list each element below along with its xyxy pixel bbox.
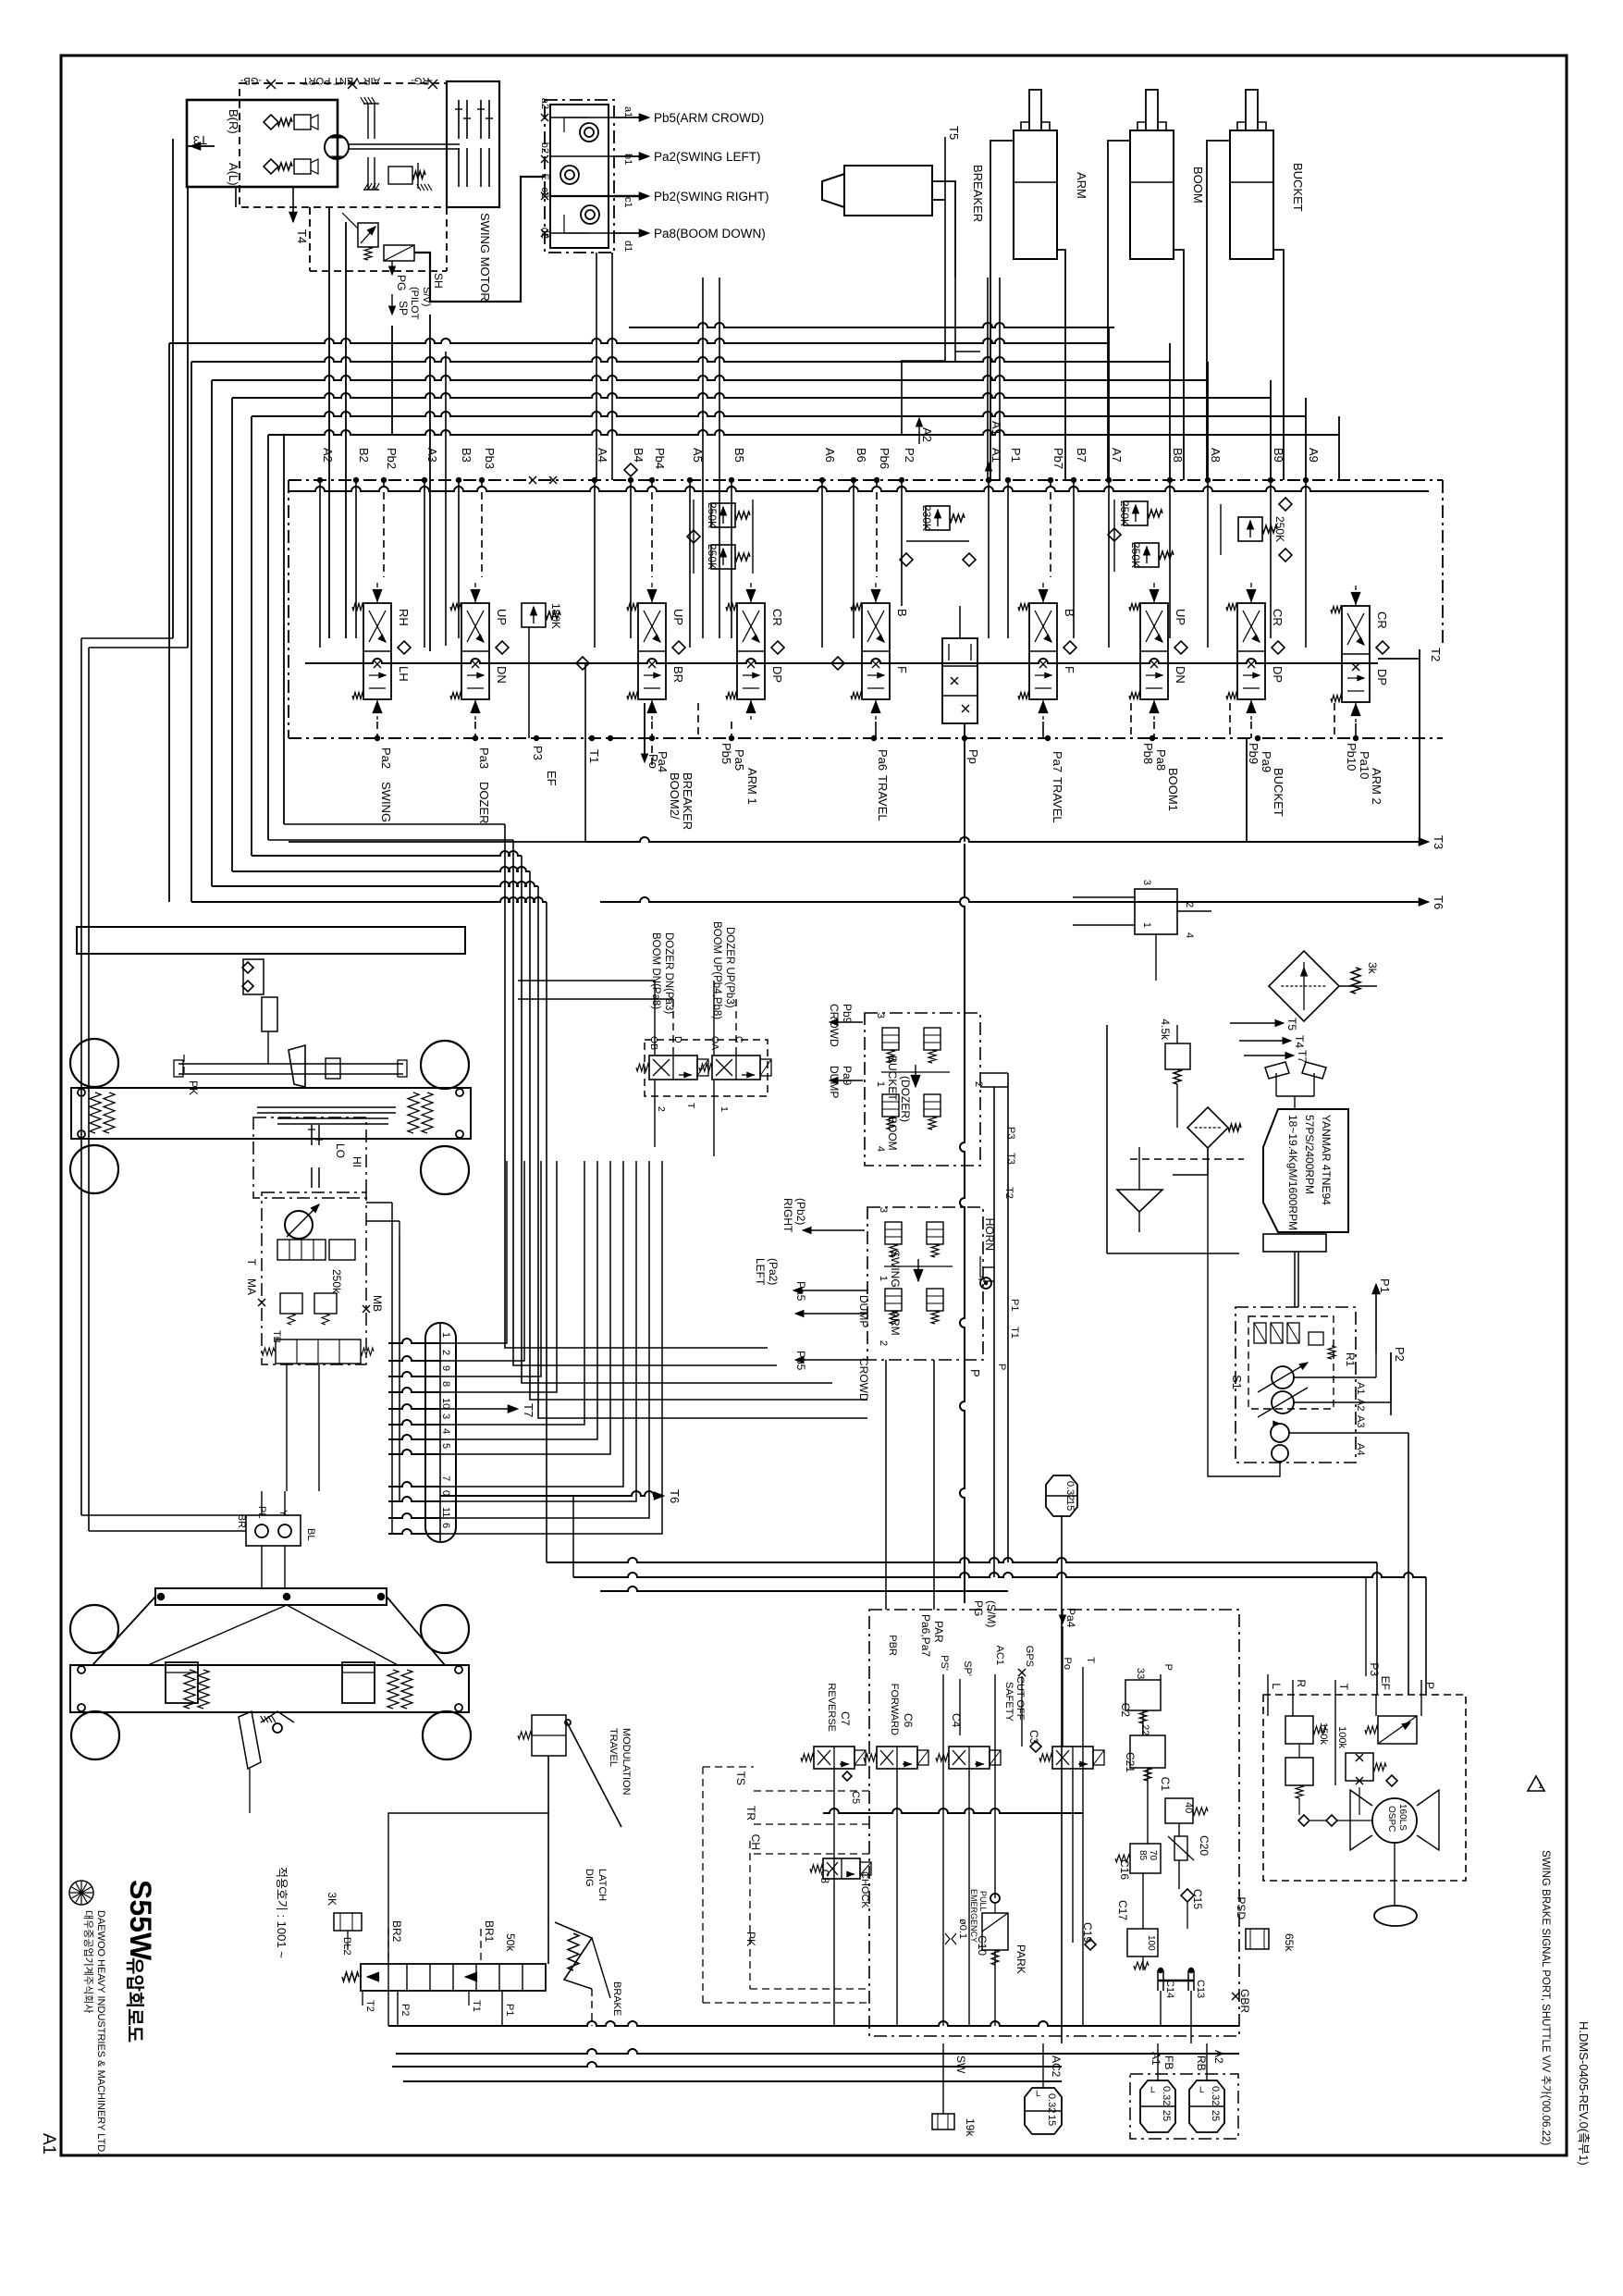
svg-text:T7: T7 xyxy=(522,1403,535,1417)
svg-text:T1: T1 xyxy=(1009,1327,1020,1339)
C14 C13 caps xyxy=(1157,1970,1159,1991)
svg-text:P3: P3 xyxy=(1005,1127,1016,1139)
pump inner box xyxy=(1248,1316,1334,1409)
clutch HI xyxy=(311,1125,313,1145)
svg-text:C6: C6 xyxy=(902,1713,915,1728)
svg-text:B8: B8 xyxy=(1171,448,1185,463)
pilot solenoid xyxy=(384,245,414,261)
check valve diamond 2 xyxy=(264,159,278,174)
svg-text:B9: B9 xyxy=(1272,448,1285,463)
svg-text:Pa2: Pa2 xyxy=(379,747,393,769)
svg-text:LEFT: LEFT xyxy=(754,1258,767,1286)
funnel breather xyxy=(1117,1190,1162,1212)
solenoid valve 2 xyxy=(712,1055,760,1080)
junction block 3124 xyxy=(1135,889,1177,934)
bottom subsystem boundary xyxy=(869,1610,1239,2036)
svg-text:0.32: 0.32 xyxy=(1046,2093,1057,2113)
svg-text:P1: P1 xyxy=(1378,1278,1392,1293)
svg-text:Pa4: Pa4 xyxy=(1064,1608,1077,1628)
svg-text:A2: A2 xyxy=(1355,1399,1366,1411)
relief 250K pair boom2 xyxy=(711,503,735,527)
wire Pb2 out xyxy=(614,195,647,197)
svg-text:Pp: Pp xyxy=(966,749,980,764)
boom cylinder rod xyxy=(1146,90,1158,130)
harness connector oval xyxy=(425,1323,456,1542)
relief 250K pair boom1 xyxy=(1124,501,1148,525)
svg-text:A4: A4 xyxy=(596,448,609,463)
spool UP/DN dozer xyxy=(461,603,489,699)
svg-text:L: L xyxy=(1150,2085,1155,2094)
diff wedge xyxy=(289,1045,305,1087)
svg-text:DP: DP xyxy=(1375,669,1389,685)
svg-text:CR: CR xyxy=(770,609,784,626)
svg-text:T3: T3 xyxy=(1432,835,1445,849)
brake cylinder left xyxy=(166,1662,198,1703)
wire arm cyl ports xyxy=(990,141,1014,480)
coupling hatch top xyxy=(361,97,364,104)
svg-text:T6: T6 xyxy=(668,1489,682,1503)
wheel rear-left-2 xyxy=(71,1711,119,1759)
svg-text:25: 25 xyxy=(1210,2110,1221,2121)
label Pb9 CROWD xyxy=(832,1021,863,1023)
axle spring hatch left xyxy=(90,1092,101,1133)
wire Pa8 out xyxy=(614,232,647,234)
svg-text:A6: A6 xyxy=(823,448,837,463)
svg-text:S55W: S55W xyxy=(124,1880,157,1961)
valve block top edge xyxy=(289,487,1429,491)
pilot bus wire y430 xyxy=(232,393,1271,398)
svg-text:Pb9: Pb9 xyxy=(1247,743,1260,764)
svg-text:P1: P1 xyxy=(1009,448,1023,463)
accumulator 0.32/15 bottom xyxy=(1025,2088,1062,2134)
swing motor dashed enclosure xyxy=(240,83,447,207)
solenoid wires xyxy=(654,981,656,1055)
svg-text:Pb5(ARM CROWD): Pb5(ARM CROWD) xyxy=(654,111,764,125)
svg-text:ARM: ARM xyxy=(889,1311,902,1336)
svg-text:A1: A1 xyxy=(990,421,1003,436)
svg-text:3: 3 xyxy=(440,1413,451,1419)
steering valve 100k xyxy=(1346,1753,1373,1781)
svg-text:15: 15 xyxy=(1064,1500,1076,1511)
svg-text:P1: P1 xyxy=(1009,1299,1020,1311)
relief cartridge 1 xyxy=(294,115,311,130)
svg-text:BUCKET: BUCKET xyxy=(886,1055,899,1101)
valve check diamonds xyxy=(398,641,411,654)
svg-text:BOOM: BOOM xyxy=(886,1117,899,1151)
brake valve body xyxy=(361,1964,546,1991)
svg-text:FORWARD: FORWARD xyxy=(889,1684,900,1735)
valve 4.5k xyxy=(1165,1043,1190,1069)
svg-text:PAR: PAR xyxy=(932,1621,945,1643)
wheel front-right-2 xyxy=(421,1146,469,1194)
svg-text:1: 1 xyxy=(875,1081,886,1087)
svg-text:Pb10: Pb10 xyxy=(1345,743,1359,771)
axle spring hatch right xyxy=(408,1092,419,1133)
svg-text:d1: d1 xyxy=(622,241,633,252)
svg-text:A8: A8 xyxy=(1209,448,1223,463)
svg-text:Pa9: Pa9 xyxy=(841,1066,854,1086)
svg-text:B4: B4 xyxy=(632,448,646,463)
rear link bars xyxy=(92,1597,155,1665)
svg-text:DOZER UP(Pb3): DOZER UP(Pb3) xyxy=(724,927,735,1008)
svg-text:PARK: PARK xyxy=(1014,1944,1027,1974)
valve interconnect rail xyxy=(305,659,1378,663)
brake port stubs xyxy=(362,1991,363,2006)
svg-text:E: E xyxy=(539,174,550,180)
svg-text:Po: Po xyxy=(1062,1658,1073,1670)
pilot bus wire y470 xyxy=(268,430,1339,435)
valve block top boundary xyxy=(289,479,1443,481)
svg-text:2: 2 xyxy=(973,1081,984,1087)
spool CR/DP arm1 xyxy=(737,603,765,699)
svg-text:DOZER: DOZER xyxy=(477,782,491,824)
svg-text:1: 1 xyxy=(719,1106,730,1112)
svg-text:T2: T2 xyxy=(1003,1187,1014,1199)
svg-text:22: 22 xyxy=(1139,1724,1150,1735)
pedal pair xyxy=(1265,1062,1289,1079)
svg-text:BL2: BL2 xyxy=(341,1937,352,1956)
svg-text:LATCH: LATCH xyxy=(596,1869,608,1901)
valve C8 CHOCK xyxy=(823,1858,860,1879)
svg-text:100k: 100k xyxy=(1336,1726,1347,1748)
svg-text:PG: PG xyxy=(395,275,408,290)
spool CR/DP bucket xyxy=(1237,603,1265,699)
svg-text:T5: T5 xyxy=(1285,1018,1298,1031)
svg-text:A7: A7 xyxy=(1110,448,1124,463)
check valve diamond 1 xyxy=(264,115,278,130)
wire breaker lines xyxy=(932,181,955,278)
svg-text:L: L xyxy=(1199,2085,1204,2094)
brake valve springs xyxy=(367,1972,379,1981)
svg-text:250K: 250K xyxy=(706,502,719,528)
wire T6 arrow xyxy=(440,1491,660,1496)
svg-text:ARM 1: ARM 1 xyxy=(745,768,759,805)
bus left turn wires xyxy=(168,343,170,902)
center bypass Pp section xyxy=(942,638,977,723)
wire T2 xyxy=(1378,658,1420,660)
bottom trunk wires xyxy=(388,2021,1239,2026)
svg-text:BUCKET: BUCKET xyxy=(1291,163,1305,212)
svg-text:BOOM UP(Pb4,Pb8): BOOM UP(Pb4,Pb8) xyxy=(711,921,722,1019)
svg-text:CROWD: CROWD xyxy=(828,1004,841,1047)
svg-text:T3: T3 xyxy=(193,133,207,147)
travel modulation valve xyxy=(532,1715,566,1756)
svg-text:CHOCK: CHOCK xyxy=(859,1871,870,1908)
svg-text:C21: C21 xyxy=(1124,1752,1137,1772)
svg-text:TRAVEL: TRAVEL xyxy=(876,775,890,821)
valve C2 33 xyxy=(1125,1680,1161,1710)
svg-text:R: R xyxy=(1295,1679,1308,1687)
svg-text:A9: A9 xyxy=(1307,448,1321,463)
pilot bus wire y411 xyxy=(212,376,1208,380)
wire swing left down 1 xyxy=(172,139,174,638)
label GBR xyxy=(1232,1993,1239,2000)
svg-text:대우중공업기계주식회사: 대우중공업기계주식회사 xyxy=(82,1910,94,2013)
svg-text:160LS: 160LS xyxy=(1397,1804,1408,1831)
svg-text:ARM 2: ARM 2 xyxy=(1370,768,1383,805)
wire T5 T4 T7 arrows xyxy=(1230,1022,1278,1024)
svg-text:1: 1 xyxy=(1538,1781,1543,1790)
svg-text:P3: P3 xyxy=(1368,1662,1381,1676)
gear set 1 xyxy=(458,100,460,139)
engine block YANMAR xyxy=(1263,1109,1348,1232)
valve C7 REVERSE xyxy=(814,1747,855,1769)
svg-text:TR: TR xyxy=(744,1806,757,1821)
svg-text:85: 85 xyxy=(1137,1850,1148,1861)
port T3 arrow xyxy=(187,145,215,147)
svg-text:T4: T4 xyxy=(295,229,309,243)
svg-text:C8: C8 xyxy=(818,1870,831,1884)
svg-text:D: D xyxy=(672,1036,683,1043)
svg-text:HI: HI xyxy=(350,1156,363,1167)
svg-text:C13: C13 xyxy=(1195,1980,1206,1998)
svg-text:57PS/2400RPM: 57PS/2400RPM xyxy=(1303,1115,1316,1194)
svg-text:H.DMS-0405-REV.0(츸부1): H.DMS-0405-REV.0(츸부1) xyxy=(1577,2021,1591,2166)
svg-text:Pa6,Pa7: Pa6,Pa7 xyxy=(919,1614,932,1657)
svg-text:Pb7: Pb7 xyxy=(1051,448,1065,469)
svg-text:ø0.1: ø0.1 xyxy=(957,1919,968,1939)
valve C21 22 xyxy=(1130,1735,1165,1768)
svg-text:P: P xyxy=(1423,1682,1436,1689)
svg-text:250K: 250K xyxy=(1129,542,1142,568)
bus top wire xyxy=(629,323,1114,327)
wheel rear-left-1 xyxy=(70,1605,118,1653)
svg-text:C4: C4 xyxy=(950,1713,963,1728)
svg-text:SP: SP xyxy=(397,301,410,315)
gearbox dashed box xyxy=(253,1117,366,1198)
OSPC body lines xyxy=(1350,1790,1372,1850)
wire SH to shuttle xyxy=(414,177,545,302)
svg-text:19k: 19k xyxy=(964,2118,977,2137)
valve C5 big xyxy=(1052,1747,1093,1769)
svg-text:Pb8: Pb8 xyxy=(1141,743,1155,764)
svg-text:PK: PK xyxy=(744,1932,757,1946)
svg-text:Pb4: Pb4 xyxy=(653,448,667,469)
pump group enclosure xyxy=(1236,1307,1356,1463)
daewoo logo xyxy=(69,1881,93,1905)
spool UP/DN boom1 xyxy=(1140,603,1168,699)
svg-text:a2: a2 xyxy=(539,98,550,109)
pump circle 1 xyxy=(1272,1366,1294,1389)
svg-text:A1: A1 xyxy=(990,448,1003,463)
svg-text:2: 2 xyxy=(440,1350,451,1355)
svg-text:2: 2 xyxy=(878,1340,889,1346)
suction filter xyxy=(1187,1107,1228,1148)
pilot joystick bucket/boom xyxy=(865,1013,980,1166)
svg-text:Y: Y xyxy=(277,1510,289,1517)
svg-text:b2: b2 xyxy=(539,142,550,154)
svg-text:RIGHT: RIGHT xyxy=(781,1198,794,1233)
coupling hatch bottom xyxy=(364,183,368,190)
steering solenoid xyxy=(1378,1716,1417,1744)
check C19 xyxy=(1085,1939,1096,1950)
relief 250K bucket xyxy=(1238,517,1262,541)
svg-text:DIG: DIG xyxy=(584,1869,595,1887)
center bundle wires xyxy=(505,824,768,1348)
wire travel mod xyxy=(547,1756,549,1964)
svg-text:Pa5: Pa5 xyxy=(794,1281,807,1302)
svg-text:11: 11 xyxy=(440,1507,451,1517)
svg-text:GPS: GPS xyxy=(1024,1646,1035,1667)
accumulator box xyxy=(1130,2074,1238,2139)
wire P down xyxy=(960,844,965,1603)
clutch LO xyxy=(311,1167,313,1188)
wire swing left down 2 xyxy=(187,187,189,648)
svg-text:Pa5: Pa5 xyxy=(732,749,746,771)
svg-text:PBR: PBR xyxy=(887,1635,898,1656)
valve C6 FORWARD xyxy=(877,1747,917,1769)
valve right dashdot edge xyxy=(1442,480,1444,648)
valve 3K BL2 xyxy=(334,1913,362,1931)
OSPC circle xyxy=(1372,1798,1417,1843)
svg-text:C5: C5 xyxy=(850,1791,861,1804)
svg-text:L: L xyxy=(1036,2089,1040,2098)
pump out wires xyxy=(1294,1376,1376,1378)
valve C10 PARK xyxy=(982,1913,1008,1950)
svg-text:230K: 230K xyxy=(920,505,933,531)
valve C4 xyxy=(949,1747,990,1769)
transmission motor xyxy=(285,1211,313,1239)
svg-text:BUCKET: BUCKET xyxy=(1272,768,1285,817)
svg-text:GBR: GBR xyxy=(1238,1989,1251,2013)
svg-text:250K: 250K xyxy=(706,544,719,570)
svg-text:15: 15 xyxy=(1046,2115,1057,2126)
brake cylinder right xyxy=(342,1662,375,1703)
valve bottom port dots xyxy=(375,735,380,741)
spool UP/BR boom2 xyxy=(638,603,666,699)
svg-text:PG: PG xyxy=(972,1600,985,1616)
engine sub box xyxy=(1263,1234,1326,1252)
svg-text:F: F xyxy=(1063,666,1076,673)
svg-text:-GB-: -GB- xyxy=(240,75,262,86)
svg-text:SWING: SWING xyxy=(889,1250,902,1288)
svg-text:Pb2: Pb2 xyxy=(385,448,399,469)
svg-text:CH: CH xyxy=(749,1834,762,1850)
spool B/F travel2 xyxy=(1029,603,1057,699)
valve wires fw/rv xyxy=(833,1769,835,2026)
wheel front-left-1 xyxy=(70,1039,118,1087)
svg-text:R1: R1 xyxy=(1344,1352,1357,1367)
svg-text:Pa9: Pa9 xyxy=(1260,751,1273,772)
svg-text:EMERGENCY: EMERGENCY xyxy=(969,1889,978,1943)
svg-text:OSPC: OSPC xyxy=(1386,1806,1396,1832)
svg-text:ARM: ARM xyxy=(1075,172,1088,199)
svg-text:SAFETY: SAFETY xyxy=(1003,1682,1014,1722)
svg-text:250k: 250k xyxy=(330,1269,343,1294)
pump suction wire xyxy=(1208,1148,1280,1476)
solenoid block enclosure xyxy=(645,1040,768,1096)
svg-text:T: T xyxy=(1085,1657,1096,1663)
svg-text:8: 8 xyxy=(440,1381,451,1387)
svg-text:(S/M): (S/M) xyxy=(985,1600,998,1627)
svg-text:A3: A3 xyxy=(1355,1415,1366,1427)
svg-text:B6: B6 xyxy=(855,448,868,463)
svg-text:7: 7 xyxy=(440,1475,451,1481)
wheel rear-right-1 xyxy=(421,1605,469,1653)
svg-text:T1: T1 xyxy=(471,2000,482,2012)
swing motor body box xyxy=(187,100,338,187)
svg-text:YANMAR 4TNE94: YANMAR 4TNE94 xyxy=(1320,1115,1333,1205)
svg-text:4: 4 xyxy=(1184,932,1195,938)
valve bottom stubs xyxy=(376,722,378,738)
svg-text:적용호기 : 1001 ~: 적용호기 : 1001 ~ xyxy=(275,1867,289,1958)
svg-text:Pa2(SWING LEFT): Pa2(SWING LEFT) xyxy=(654,150,761,164)
svg-text:UP: UP xyxy=(495,609,509,625)
valve C17 100 xyxy=(1127,1929,1158,1957)
relief cartridge 2 xyxy=(294,159,311,174)
svg-text:BREAKER: BREAKER xyxy=(971,165,985,222)
trans bottom cells xyxy=(276,1339,361,1364)
svg-text:BR1: BR1 xyxy=(483,1920,496,1943)
svg-text:1: 1 xyxy=(1141,922,1152,928)
svg-text:B2: B2 xyxy=(357,448,371,463)
rear axle housing xyxy=(70,1665,469,1712)
svg-text:C7: C7 xyxy=(839,1711,852,1726)
valve top ports xyxy=(317,477,323,483)
svg-text:b1: b1 xyxy=(622,154,633,165)
valve port drop wires xyxy=(319,480,321,648)
svg-text:AC1: AC1 xyxy=(994,1646,1005,1665)
svg-text:MA: MA xyxy=(245,1278,258,1295)
wheel rear-right-2 xyxy=(423,1711,471,1759)
label Pa9 DUMP xyxy=(832,1080,863,1081)
svg-text:150k: 150k xyxy=(1318,1722,1329,1745)
wheel front-left-2 xyxy=(70,1145,118,1193)
parking brake spring xyxy=(388,167,412,184)
svg-text:A3: A3 xyxy=(425,448,439,463)
svg-text:T4: T4 xyxy=(1293,1035,1306,1048)
svg-text:1: 1 xyxy=(440,1332,451,1338)
svg-text:A2: A2 xyxy=(321,448,335,463)
svg-text:TRAVEL: TRAVEL xyxy=(1051,777,1064,823)
svg-text:Pa6: Pa6 xyxy=(876,749,890,771)
svg-text:250K: 250K xyxy=(1118,500,1131,526)
pilot bus wire y391 xyxy=(191,357,1170,362)
wire Pb5 out xyxy=(614,117,647,118)
svg-text:Pa8: Pa8 xyxy=(1154,749,1168,771)
wire boom cyl ports xyxy=(1108,141,1130,480)
prop shaft plates xyxy=(257,1106,396,1108)
svg-text:Pa10: Pa10 xyxy=(1358,751,1371,779)
svg-text:BR: BR xyxy=(671,666,685,683)
svg-text:EF: EF xyxy=(1379,1676,1392,1690)
relief 230K travel xyxy=(926,506,950,530)
valve block right edge xyxy=(1246,738,1248,842)
steering wheel xyxy=(1374,1906,1417,1926)
steering valve 150k xyxy=(1285,1716,1313,1744)
spring 3k xyxy=(1351,968,1360,994)
shuttle check 1 xyxy=(580,123,598,142)
svg-text:CR: CR xyxy=(1375,611,1389,629)
air cleaner xyxy=(1269,951,1339,1021)
svg-text:C17: C17 xyxy=(1116,1900,1129,1920)
solenoid valve 1 xyxy=(649,1055,697,1080)
svg-text:BL: BL xyxy=(305,1528,316,1540)
wheel front-right-1 xyxy=(421,1041,469,1089)
svg-text:CR: CR xyxy=(1271,609,1285,626)
svg-text:BOOM DN(Pa8): BOOM DN(Pa8) xyxy=(650,932,661,1009)
svg-text:SW: SW xyxy=(954,2055,967,2074)
svg-text:P: P xyxy=(968,1369,982,1377)
svg-text:F: F xyxy=(895,666,909,673)
motor shaft xyxy=(349,143,460,145)
svg-text:2: 2 xyxy=(656,1106,667,1112)
wire bucket cyl ports xyxy=(1207,141,1230,480)
svg-text:0.32: 0.32 xyxy=(1064,1481,1076,1500)
gear set 2 xyxy=(480,100,482,139)
svg-text:BREAKER: BREAKER xyxy=(681,772,695,830)
steering link xyxy=(178,1063,403,1065)
